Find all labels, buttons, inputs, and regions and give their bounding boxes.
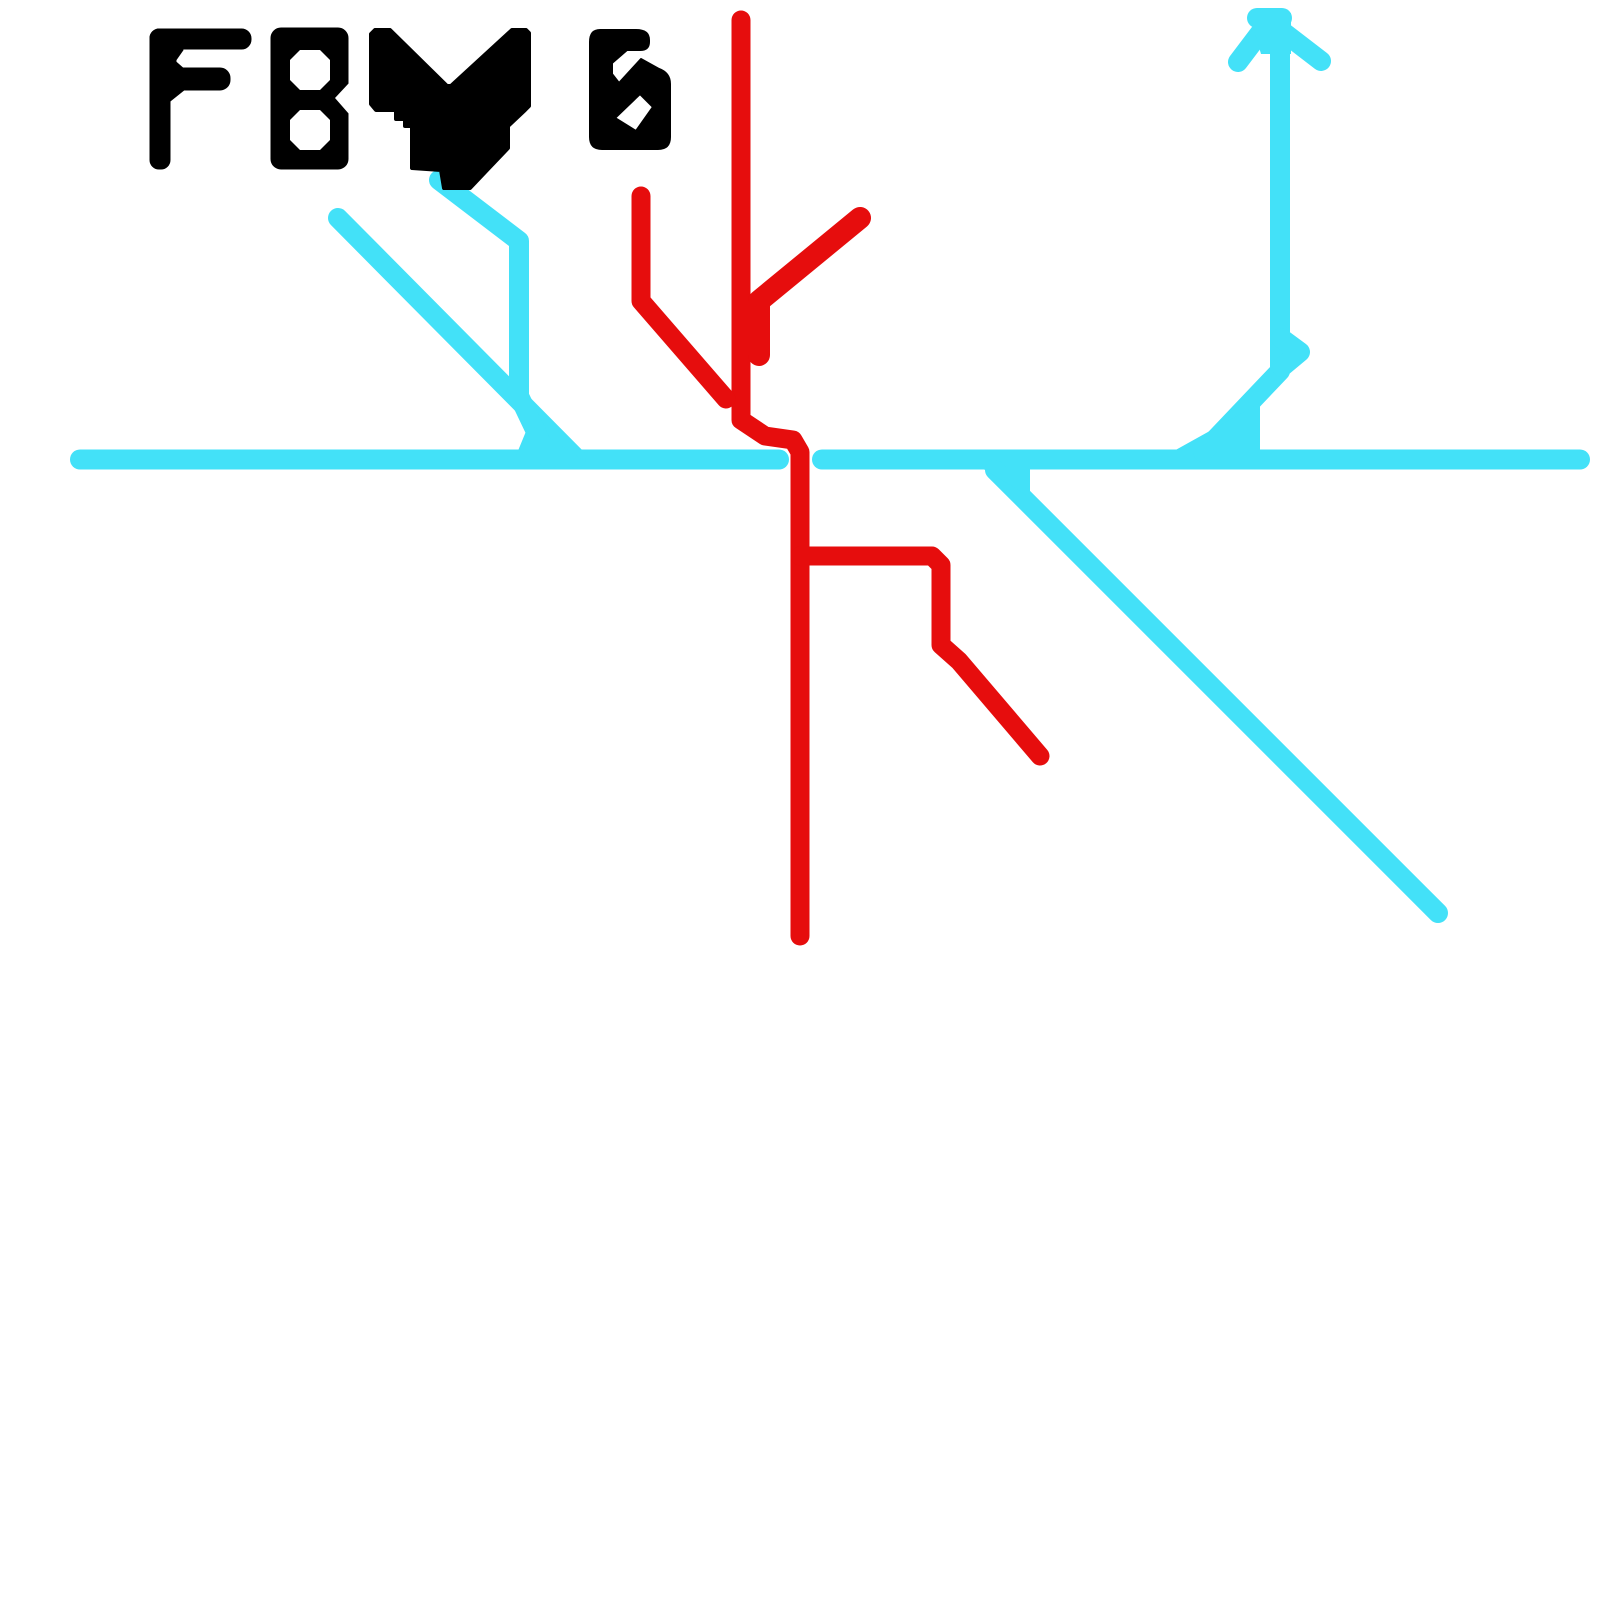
digit 6: [590, 30, 670, 149]
butterfly glyph: [371, 30, 529, 188]
wire cyan long diagonal branch upper left: [338, 218, 576, 458]
node junction blob arrow shaft meets horizontal: [1172, 403, 1260, 452]
letter B: [271, 28, 349, 169]
arrowhead inner fill: [1249, 13, 1291, 54]
letter F: [150, 29, 251, 169]
wire red main vertical trunk with jog crossing cyan line: [741, 20, 800, 936]
arrowhead chevron: [1238, 21, 1321, 62]
node junction blob diagonals meet horizontal: [513, 424, 588, 463]
wire cyan vertical arrow shaft with jog: [1203, 45, 1280, 452]
arrowhead tip bar: [1257, 8, 1282, 28]
arrow shaft jog bump: [1281, 338, 1300, 367]
wire cyan horizontal main line left segment: [80, 450, 779, 470]
wire red lower right branch with steps: [800, 556, 1040, 756]
wire cyan bottom right diagonal branch: [995, 470, 1438, 913]
wire red left branch: [641, 196, 726, 399]
node junction blob bottom right diagonal meets horizontal: [980, 467, 1030, 497]
wire cyan short diagonal with vertical drop: [439, 180, 549, 459]
wire cyan horizontal main line right segment: [822, 450, 1580, 470]
wire red right branch: [759, 218, 860, 355]
